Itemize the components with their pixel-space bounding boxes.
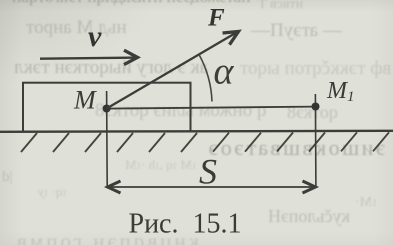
vertical line through M down to S arrow (106, 91, 109, 187)
angle alpha arc (199, 55, 212, 102)
ground hatching (21, 132, 389, 152)
bleed-through mirrored text from reverse page side (12, 0, 250, 7)
S distance double arrow (108, 181, 316, 193)
force F arrow (107, 26, 242, 109)
svg-text:v: v (88, 20, 102, 53)
block (body on surface) (23, 83, 191, 132)
point M dot (103, 105, 111, 113)
svg-text:α: α (214, 51, 235, 93)
svg-text:M: M (73, 86, 97, 115)
svg-text:M1: M1 (326, 78, 355, 105)
vertical line through M1 down to S arrow (314, 94, 317, 187)
ground line (0, 131, 393, 132)
trajectory line M to M1 (107, 107, 316, 109)
svg-text:Рис. 15.1: Рис. 15.1 (129, 209, 242, 240)
svg-text:S: S (199, 152, 217, 192)
svg-text:F: F (207, 5, 225, 32)
point M1 dot (312, 103, 320, 111)
velocity v arrow (40, 50, 138, 64)
